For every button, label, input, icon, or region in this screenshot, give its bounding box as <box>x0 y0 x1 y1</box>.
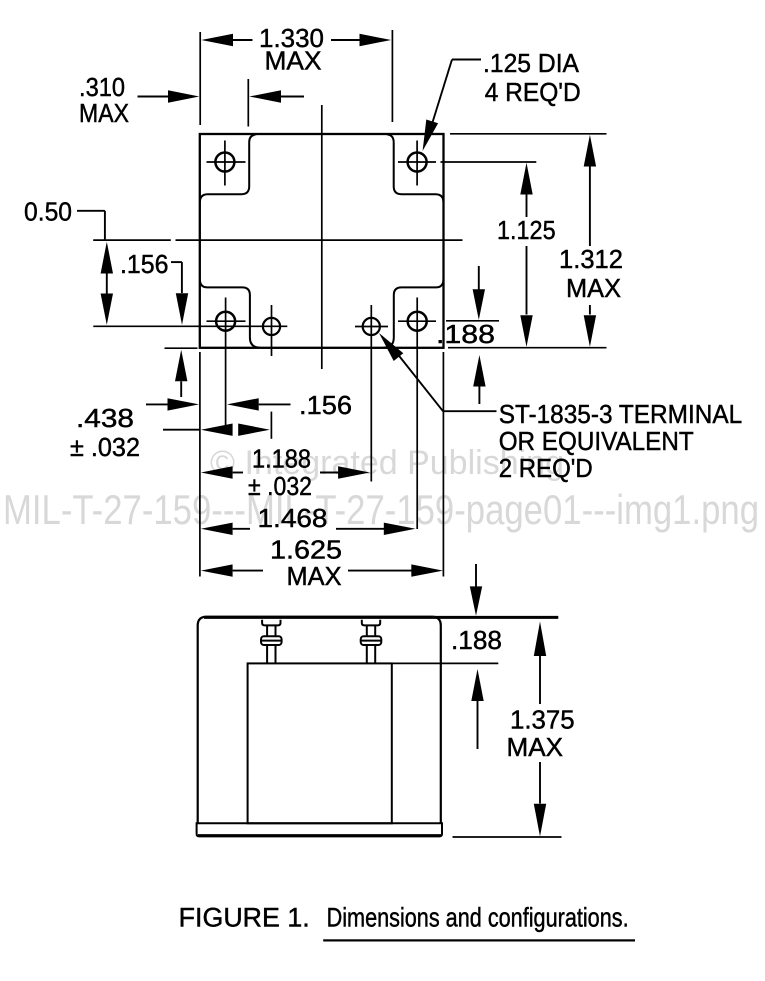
svg-text:MAX: MAX <box>507 732 564 762</box>
inner body top extension <box>392 662 499 664</box>
svg-text:.438: .438 <box>76 403 134 433</box>
bottom-right mounting ear step <box>384 279 444 347</box>
dimension 1.625 MAX <box>201 564 233 576</box>
top-right mounting ear step <box>387 134 443 202</box>
svg-text:MIL-T-27-159---MIL-T-27-159-pa: MIL-T-27-159---MIL-T-27-159-page01---img… <box>3 486 759 533</box>
svg-text:.188: .188 <box>451 625 502 655</box>
horizontal centerline <box>93 239 171 241</box>
side view inner body <box>248 663 392 823</box>
svg-text:MAX: MAX <box>287 561 342 591</box>
svg-text:± .032: ± .032 <box>248 471 312 501</box>
dimension .156 terminal offset <box>146 403 168 405</box>
side view base flange <box>197 823 442 836</box>
left edge extension below <box>199 352 201 577</box>
svg-text:1.468: 1.468 <box>258 503 328 533</box>
right edge extension below <box>442 352 444 577</box>
dimension 1.468 <box>201 523 233 535</box>
svg-text:ST-1835-3 TERMINAL: ST-1835-3 TERMINAL <box>499 399 743 429</box>
svg-text:2 REQ'D: 2 REQ'D <box>499 453 593 483</box>
svg-text:FIGURE 1.: FIGURE 1. <box>179 903 310 933</box>
svg-text:1.625: 1.625 <box>270 535 342 565</box>
svg-text:1.375: 1.375 <box>510 705 575 735</box>
vertical centerline <box>321 105 323 369</box>
terminal hole 1 <box>263 318 280 335</box>
dimension 1.188 <box>201 466 233 478</box>
svg-text:4 REQ'D: 4 REQ'D <box>485 77 581 107</box>
svg-text:.156: .156 <box>120 249 169 279</box>
dimension 1.312 MAX <box>584 135 596 167</box>
svg-text:.188: .188 <box>436 319 495 349</box>
svg-text:OR EQUIVALENT: OR EQUIVALENT <box>499 426 694 456</box>
svg-text:MAX: MAX <box>79 98 129 128</box>
bottom-left mounting ear step <box>200 279 260 347</box>
terminal row reference line <box>93 325 287 327</box>
side terminal 2 <box>361 620 382 664</box>
svg-text:0.50: 0.50 <box>24 197 72 227</box>
side view case top edge thick <box>204 616 558 619</box>
leader .125 DIA 4 REQ'D <box>452 59 481 61</box>
dimension 1.375 MAX <box>534 622 546 657</box>
terminal hole 2 <box>363 318 380 335</box>
top-left mounting ear step <box>200 134 256 202</box>
leader ST-1835-3 terminal <box>379 333 403 361</box>
body outline top view <box>200 134 444 348</box>
dimension .188 top view <box>478 266 480 290</box>
svg-text:.125 DIA: .125 DIA <box>483 48 580 78</box>
dimension .438 <box>163 429 200 431</box>
bottom edge extension left <box>165 347 198 349</box>
mounting hole top-left <box>215 153 234 172</box>
dimension 1.330 MAX <box>199 32 201 125</box>
mounting hole bottom-right <box>408 312 427 331</box>
svg-text:Dimensions and configurations.: Dimensions and configurations. <box>327 903 629 933</box>
mounting hole bottom-left <box>216 312 235 331</box>
svg-text:MAX: MAX <box>566 273 621 303</box>
svg-text:.156: .156 <box>299 390 352 420</box>
dimension 1.125 <box>520 163 532 195</box>
right extension lines <box>450 133 607 135</box>
svg-text:1.125: 1.125 <box>497 215 556 245</box>
svg-text:MAX: MAX <box>265 46 322 76</box>
dimension .310 MAX <box>247 79 249 127</box>
base bottom extension right <box>453 836 562 838</box>
mounting hole top-right <box>408 153 427 172</box>
side terminal 1 <box>261 620 282 664</box>
dimension .188 side view <box>475 564 477 587</box>
svg-text:1.312: 1.312 <box>559 244 623 274</box>
svg-text:± .032: ± .032 <box>70 432 140 462</box>
side view case outline <box>198 617 441 824</box>
svg-text:1.188: 1.188 <box>252 444 311 474</box>
